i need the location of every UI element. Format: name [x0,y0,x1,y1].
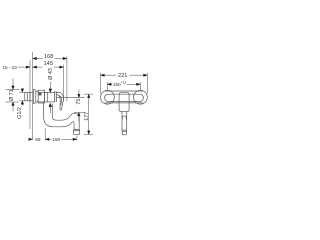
svg-text:145: 145 [44,61,53,67]
svg-text:59: 59 [35,137,41,143]
svg-text:168: 168 [44,54,53,60]
svg-text:221: 221 [118,73,127,79]
svg-text:+12: +12 [121,81,127,85]
svg-text:75: 75 [76,99,82,105]
svg-text:177: 177 [84,112,90,121]
svg-text:15 - 23: 15 - 23 [2,65,17,70]
svg-text:150: 150 [113,82,121,87]
svg-text:Ø 43: Ø 43 [48,68,54,80]
svg-text:Ø 71: Ø 71 [9,89,15,101]
svg-text:G1/2: G1/2 [17,107,23,119]
svg-text:150: 150 [52,137,60,143]
